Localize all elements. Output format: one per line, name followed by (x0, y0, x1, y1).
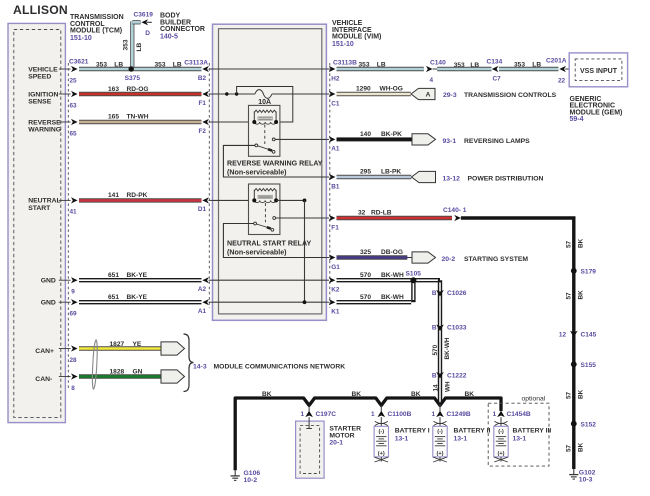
svg-text:13-1: 13-1 (395, 436, 409, 443)
svg-text:29-3: 29-3 (443, 92, 457, 99)
svg-text:59-4: 59-4 (570, 116, 584, 123)
reverse warning relay contact output to A1 (275, 138, 326, 140)
neutral start relay common feed from G1 (223, 224, 326, 258)
brace for module communications network (184, 334, 194, 392)
svg-text:651: 651 (108, 294, 119, 301)
VIM left pin D1 (209, 199, 213, 201)
svg-text:BK-YE: BK-YE (127, 294, 148, 301)
VIM right pin F1 (326, 217, 329, 219)
svg-text:S375: S375 (125, 75, 141, 82)
svg-text:G102: G102 (579, 469, 596, 476)
svg-text:353: 353 (122, 39, 129, 50)
svg-text:(-): (-) (498, 429, 504, 435)
svg-text:BATTERY III: BATTERY III (513, 428, 552, 435)
svg-text:325: 325 (360, 249, 371, 256)
svg-text:(-): (-) (379, 429, 385, 435)
VIM left pin B2 (209, 68, 213, 70)
svg-text:570: 570 (360, 294, 371, 301)
svg-text:69: 69 (70, 311, 78, 318)
svg-text:D: D (145, 30, 150, 37)
svg-text:165: 165 (108, 114, 119, 121)
svg-text:DB-OG: DB-OG (381, 249, 403, 256)
neutral start relay coil (254, 189, 276, 191)
svg-text:C1249B: C1249B (447, 411, 471, 418)
svg-text:BK-WH: BK-WH (381, 294, 404, 301)
reverse warning relay box (249, 105, 280, 156)
svg-text:F2: F2 (199, 128, 207, 135)
svg-text:REVERSING LAMPS: REVERSING LAMPS (464, 138, 530, 145)
svg-text:(Non-serviceable): (Non-serviceable) (227, 249, 287, 257)
svg-text:POWER DISTRIBUTION: POWER DISTRIBUTION (468, 175, 544, 182)
svg-text:163: 163 (108, 86, 119, 93)
splice S105 (410, 277, 416, 283)
svg-text:570: 570 (360, 272, 371, 279)
connector arcs above battery II (434, 421, 447, 423)
svg-text:MODULE (VIM): MODULE (VIM) (332, 34, 381, 41)
svg-text:C134: C134 (487, 58, 503, 65)
TCM connector face dashed line (67, 63, 69, 390)
svg-text:REVERSE WARNING RELAY: REVERSE WARNING RELAY (227, 160, 323, 168)
wire 32 RD-LB (starting feed) (337, 216, 453, 220)
splice S155 (571, 361, 577, 367)
svg-text:BK: BK (578, 290, 585, 300)
battery III ground legs (500, 457, 502, 462)
svg-text:S179: S179 (581, 269, 597, 276)
svg-text:CAN-: CAN- (35, 376, 52, 383)
svg-text:12: 12 (559, 332, 567, 339)
svg-text:57: 57 (566, 292, 573, 300)
VIM right pin B1 (326, 176, 329, 178)
svg-text:NEUTRAL: NEUTRAL (28, 198, 60, 205)
wire 570 BK-WH (K2 to S105) (337, 278, 414, 282)
svg-text:353: 353 (155, 61, 166, 68)
svg-text:CONNECTOR: CONNECTOR (160, 26, 205, 33)
VIM left pin F1 (209, 93, 213, 95)
wire 140 BK-PK (reversing lamps) (337, 137, 412, 141)
flag (starting system) (412, 252, 436, 263)
svg-text:VEHICLE: VEHICLE (28, 66, 58, 73)
svg-text:BK: BK (262, 391, 272, 398)
svg-text:28: 28 (70, 357, 78, 364)
svg-text:F1: F1 (199, 100, 207, 107)
splice S179 (571, 268, 577, 274)
svg-text:RD-PK: RD-PK (127, 192, 148, 199)
svg-text:BK: BK (578, 389, 585, 399)
svg-text:C1033: C1033 (447, 325, 467, 332)
svg-text:14: 14 (432, 384, 439, 392)
VSS INPUT box (569, 53, 627, 87)
wire 141 RD-PK (neutral start) (79, 198, 202, 202)
wire reverse warning signal (F2 to relay coil) (213, 121, 254, 123)
wire 165 TN-WH (reverse warning) (79, 120, 202, 124)
connector C1222 (436, 372, 444, 379)
wire 353 LB from C140 to C134 (437, 67, 491, 71)
CAN+ flag (161, 342, 185, 355)
flag (reversing lamps) (412, 134, 436, 145)
svg-text:295: 295 (360, 168, 371, 175)
VIM inner content box (219, 29, 322, 314)
connector C140-1 arrow (454, 215, 461, 221)
svg-text:57: 57 (566, 240, 573, 248)
svg-text:NEUTRAL START RELAY: NEUTRAL START RELAY (227, 240, 311, 248)
svg-text:MODULE COMMUNICATIONS NETWORK: MODULE COMMUNICATIONS NETWORK (214, 364, 346, 371)
svg-text:BK: BK (578, 238, 585, 248)
VIM left pin A1 (209, 301, 213, 303)
transmission control module (TCM) box (8, 23, 65, 422)
svg-text:C1222: C1222 (447, 373, 467, 380)
svg-text:141: 141 (108, 192, 119, 199)
VIM left pin A2 (209, 279, 213, 281)
svg-text:41: 41 (70, 209, 78, 216)
svg-text:A: A (426, 92, 431, 99)
wire 295 LB-PK (power distribution) (337, 175, 412, 179)
svg-text:1: 1 (431, 411, 435, 418)
svg-text:1: 1 (371, 411, 375, 418)
neutral start relay coil return to K1 node (276, 199, 304, 201)
connector arcs above battery I (375, 421, 388, 423)
svg-text:(+): (+) (498, 451, 505, 457)
svg-text:C3113B: C3113B (333, 59, 357, 66)
svg-text:C3619: C3619 (134, 12, 154, 19)
wire 570 BK-WH (K1 up to S105) (337, 300, 412, 304)
svg-text:TN-WH: TN-WH (127, 114, 149, 121)
svg-text:(+): (+) (437, 451, 444, 457)
svg-text:C1100B: C1100B (388, 411, 412, 418)
svg-text:151-10: 151-10 (332, 41, 354, 48)
svg-text:140: 140 (360, 131, 371, 138)
VIM right pin H2 (326, 68, 329, 70)
svg-text:1290: 1290 (356, 86, 371, 93)
svg-text:ALLISON: ALLISON (13, 3, 68, 17)
svg-text:TRANSMISSION CONTROLS: TRANSMISSION CONTROLS (464, 92, 557, 99)
wire 353 LB through VIM (B2 to H2) (213, 68, 327, 70)
svg-text:10-3: 10-3 (579, 477, 593, 484)
svg-text:B1: B1 (331, 183, 340, 190)
svg-text:B: B (432, 325, 437, 332)
svg-text:10-2: 10-2 (244, 477, 258, 484)
VIM right pin C1 (326, 93, 329, 95)
svg-text:LB: LB (377, 62, 386, 69)
svg-text:1: 1 (493, 411, 497, 418)
svg-text:93-1: 93-1 (443, 138, 457, 145)
svg-text:32: 32 (358, 209, 366, 216)
svg-text:651: 651 (108, 272, 119, 279)
svg-text:K2: K2 (331, 287, 340, 294)
svg-text:G1: G1 (331, 264, 340, 271)
svg-text:A1: A1 (198, 308, 207, 315)
svg-text:C140: C140 (430, 59, 446, 66)
connector C134 arrow (492, 66, 499, 72)
svg-text:LB: LB (136, 42, 143, 51)
connector C3619 arrow (141, 19, 148, 25)
svg-text:A1: A1 (331, 146, 340, 153)
svg-text:WARNING: WARNING (28, 127, 61, 134)
svg-text:GND: GND (41, 278, 56, 285)
connector C1026 (436, 290, 444, 297)
svg-text:C3621: C3621 (69, 58, 89, 65)
svg-text:8: 8 (71, 385, 75, 392)
starter motor box (296, 421, 325, 478)
ground bus BK (235, 398, 501, 470)
svg-text:C145: C145 (581, 332, 597, 339)
svg-text:570: 570 (432, 344, 439, 355)
svg-text:START: START (28, 205, 51, 212)
svg-text:BK: BK (352, 391, 362, 398)
flag (power distribution) (412, 171, 436, 182)
svg-text:22: 22 (558, 77, 566, 84)
svg-text:9: 9 (71, 289, 75, 296)
svg-text:S105: S105 (406, 270, 422, 277)
svg-text:1828: 1828 (110, 369, 125, 376)
svg-text:13-1: 13-1 (454, 436, 468, 443)
twisted pair symbol (92, 340, 99, 390)
svg-text:BATTERY I: BATTERY I (395, 428, 430, 435)
svg-text:13-12: 13-12 (443, 175, 461, 182)
wire 353 LB from TCM to VIM (79, 67, 202, 71)
neutral start relay contact output to F1 (32 RD-LB) (276, 217, 327, 219)
svg-text:RD-LB: RD-LB (371, 209, 392, 216)
wire 651 BK-YE (GND A1) (79, 300, 202, 304)
svg-text:(+): (+) (378, 451, 385, 457)
wire ignition feed through VIM (F1 to C1) with fuse (213, 93, 255, 95)
wire 1827 YE (CAN+) (79, 346, 162, 350)
svg-text:REVERSE: REVERSE (28, 119, 61, 126)
connector arcs above battery III (495, 421, 508, 423)
svg-text:D1: D1 (198, 206, 207, 213)
svg-text:151-10: 151-10 (70, 35, 92, 42)
battery II ground legs (439, 457, 441, 462)
wire 353 LB from C134 to GEM (499, 67, 558, 71)
svg-text:BK: BK (411, 391, 421, 398)
svg-text:353: 353 (96, 61, 107, 68)
svg-text:RD-OG: RD-OG (127, 86, 149, 93)
connector C145 (570, 331, 578, 338)
splice S375 (129, 66, 134, 71)
connector C1100B (380, 405, 382, 411)
svg-text:C1454B: C1454B (507, 411, 531, 418)
svg-text:C197C: C197C (316, 411, 337, 418)
svg-text:1827: 1827 (110, 341, 125, 348)
svg-text:B: B (432, 290, 437, 297)
svg-text:S152: S152 (581, 421, 597, 428)
reverse warning relay switch arm (255, 144, 258, 147)
svg-text:F1: F1 (331, 224, 339, 231)
connector C1033 (436, 325, 444, 332)
battery III box (494, 426, 508, 457)
VIM left pin F2 (209, 121, 213, 123)
vehicle interface module (VIM) box (213, 24, 327, 320)
svg-text:LB-PK: LB-PK (381, 168, 401, 175)
svg-text:BK-PK: BK-PK (381, 131, 402, 138)
wire 325 DB-OG (starting system) (337, 255, 408, 259)
wire 1290 WH-OG (transmission controls) (337, 92, 411, 96)
VIM right connector face dashed line (329, 63, 331, 308)
wire coil return vertical to K1 (304, 200, 306, 302)
svg-text:GN: GN (133, 369, 143, 376)
wire 1828 GN (CAN-) (79, 374, 162, 378)
svg-text:LB: LB (114, 61, 123, 68)
flag A (transmission controls) (411, 88, 435, 99)
svg-text:WH-OG: WH-OG (380, 86, 403, 93)
svg-text:(-): (-) (437, 429, 443, 435)
battery II box (433, 426, 447, 457)
svg-text:A2: A2 (198, 286, 207, 293)
svg-text:BK: BK (465, 391, 475, 398)
svg-text:IGNITION: IGNITION (28, 91, 58, 98)
connector C1454B (497, 411, 505, 418)
svg-text:14-3: 14-3 (193, 364, 207, 371)
svg-text:65: 65 (70, 130, 78, 137)
svg-text:BK-WH: BK-WH (444, 337, 451, 359)
svg-text:GND: GND (41, 300, 56, 307)
svg-text:4: 4 (430, 77, 434, 84)
svg-text:57: 57 (566, 444, 573, 452)
TCM inner dashed connector boundary (14, 30, 61, 418)
svg-text:353: 353 (359, 62, 370, 69)
optional battery dashed box (488, 403, 549, 466)
svg-text:25: 25 (70, 77, 78, 84)
reverse warning relay coil (254, 110, 276, 112)
svg-text:optional: optional (522, 395, 546, 402)
svg-text:B: B (432, 373, 437, 380)
svg-text:LB: LB (173, 61, 182, 68)
wire GND through VIM (A1 to K1) (213, 301, 327, 303)
wire 651 BK-YE (GND A2) (79, 278, 202, 282)
wire neutral start signal (D1 to relay coil) (213, 199, 254, 201)
neutral start relay box (249, 184, 280, 235)
svg-text:C7: C7 (493, 76, 502, 83)
connector C201A arrow (559, 66, 566, 72)
svg-text:G106: G106 (244, 470, 261, 477)
svg-text:13-1: 13-1 (513, 436, 527, 443)
svg-text:SENSE: SENSE (28, 99, 52, 106)
connector C140 arrow (426, 66, 433, 72)
ground G106 (234, 470, 236, 476)
reverse warning relay common feed from B1 (223, 145, 326, 177)
connector C1249B (439, 404, 441, 411)
wire BK from C140-1 down right side (461, 218, 574, 469)
svg-text:SPEED: SPEED (28, 74, 51, 81)
svg-text:BK-WH: BK-WH (381, 272, 404, 279)
CAN- flag (161, 370, 185, 383)
svg-text:63: 63 (70, 102, 78, 109)
svg-text:57: 57 (566, 391, 573, 399)
svg-text:C1026: C1026 (447, 290, 467, 297)
svg-text:C201A: C201A (546, 57, 567, 64)
svg-text:CAN+: CAN+ (35, 348, 54, 355)
wire 353 LB from VIM to C140 (337, 67, 424, 71)
svg-text:BATTERY II: BATTERY II (454, 428, 491, 435)
VIM right pin K2 (326, 279, 329, 281)
svg-text:S155: S155 (581, 362, 597, 369)
svg-text:C3113A: C3113A (184, 59, 208, 66)
battery I box (374, 426, 388, 457)
battery I ground legs (380, 457, 382, 462)
svg-text:20-2: 20-2 (442, 256, 456, 263)
VIM right pin K1 (326, 301, 329, 303)
svg-text:VSS INPUT: VSS INPUT (580, 68, 618, 75)
svg-text:H2: H2 (331, 75, 340, 82)
neutral start relay actuator dashed link (264, 203, 266, 222)
svg-text:140-5: 140-5 (160, 33, 178, 40)
wire 163 RD-OG (ignition sense) (79, 92, 202, 96)
splice S152 (571, 421, 577, 427)
body builder connector C3619 wire (353 LB vertical) (130, 22, 134, 70)
connector C197C (308, 405, 310, 411)
VIM right pin A1 (326, 138, 329, 140)
wire from fuse node to relay coil (loop) (237, 87, 293, 123)
svg-text:BK: BK (578, 442, 585, 452)
reverse warning relay actuator dashed link (264, 125, 266, 145)
svg-text:(Non-serviceable): (Non-serviceable) (227, 169, 287, 177)
svg-text:C140- 1: C140- 1 (443, 207, 467, 214)
VIM right pin G1 (326, 257, 329, 259)
wire 570 BK-WH from S105 down to batteries (414, 278, 440, 282)
svg-text:MODULE (TCM): MODULE (TCM) (70, 28, 122, 35)
svg-text:MOTOR: MOTOR (329, 432, 354, 439)
svg-text:YE: YE (133, 341, 142, 348)
svg-text:BK-YE: BK-YE (127, 272, 148, 279)
fuse 10A symbol (255, 90, 272, 99)
svg-text:STARTING SYSTEM: STARTING SYSTEM (464, 256, 528, 263)
svg-text:K1: K1 (331, 309, 340, 316)
svg-text:B2: B2 (198, 75, 207, 82)
svg-text:C1: C1 (331, 100, 340, 107)
svg-text:1: 1 (300, 411, 304, 418)
neutral start relay switch arm (254, 222, 257, 225)
ground G102 (573, 469, 575, 475)
VIM left connector face dashed line (208, 63, 210, 308)
svg-text:WH: WH (444, 381, 451, 392)
svg-text:20-1: 20-1 (329, 439, 343, 446)
wire GND through VIM (A2 to K2) (213, 279, 327, 281)
